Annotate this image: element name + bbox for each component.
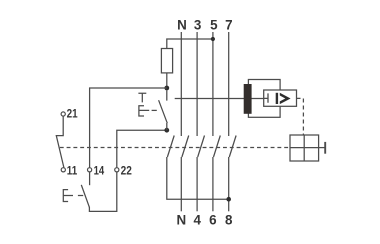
- current transformer core W1: [244, 84, 252, 114]
- test button actuator E: [139, 106, 149, 116]
- svg-text:N: N: [176, 213, 186, 228]
- wire pole 7 upper: [228, 32, 230, 136]
- aux contact 21-11: [56, 116, 64, 167]
- svg-text:6: 6: [209, 213, 216, 228]
- mechanism latch box: [290, 135, 319, 161]
- wire terminal 14 lower stub: [89, 172, 91, 185]
- wire pole 4 lower: [196, 157, 198, 211]
- svg-text:11: 11: [67, 163, 78, 177]
- resistor R (test circuit): [161, 49, 172, 73]
- terminal 22: [115, 168, 119, 172]
- wire CT secondary to relay: [175, 98, 264, 100]
- wire pole N lower: [180, 157, 182, 211]
- terminal 14: [88, 168, 92, 172]
- test contact: [159, 90, 168, 130]
- wire node to terminal 14: [90, 88, 167, 168]
- wire resistor bottom to node: [166, 73, 168, 88]
- svg-text:N: N: [177, 17, 187, 32]
- svg-text:22: 22: [121, 163, 132, 177]
- mechanism latch box cross: [290, 135, 319, 161]
- mechanical linkage (dashed): [60, 147, 290, 149]
- node junction test bottom: [164, 128, 169, 133]
- svg-text:14: 14: [94, 163, 105, 177]
- main contact pole 3-4: [198, 136, 205, 158]
- svg-text:3: 3: [194, 17, 201, 32]
- wire test branch lower to pole 8: [167, 157, 229, 199]
- node junction test top: [164, 86, 169, 91]
- current transformer secondary loop: [248, 80, 280, 118]
- svg-text:5: 5: [210, 17, 218, 32]
- wire pole 6 lower: [212, 157, 214, 211]
- wire pole 8 lower: [228, 157, 230, 211]
- handle link: [319, 147, 326, 149]
- node junction pole 8: [226, 197, 231, 202]
- main contact pole 7-8: [229, 136, 236, 158]
- relay input tick: [264, 93, 268, 102]
- lower button link (dash): [78, 195, 83, 197]
- svg-text:21: 21: [67, 107, 78, 121]
- relay symbol I: [276, 93, 278, 104]
- node junction on pole 5: [211, 37, 215, 41]
- wire terminal 22 to test contact node: [117, 130, 167, 167]
- wire pole 3 upper: [196, 32, 198, 136]
- main contact pole 5-6: [214, 136, 221, 158]
- lower button actuator E: [63, 190, 73, 202]
- relay symbol >: [280, 93, 291, 104]
- terminal 11: [61, 168, 65, 172]
- svg-text:7: 7: [225, 17, 232, 32]
- wire pole N upper: [180, 32, 182, 136]
- main contact test branch: [167, 136, 174, 158]
- relay trip linkage (dashed): [297, 98, 304, 135]
- test button T: [138, 93, 146, 102]
- main contact pole N: [182, 136, 189, 158]
- lower contact 14-22 blade: [81, 185, 89, 207]
- test button link (dash): [152, 109, 157, 111]
- terminal 21: [61, 112, 65, 116]
- handle bar: [324, 142, 326, 154]
- svg-text:4: 4: [193, 213, 201, 228]
- wire resistor top to pole 5: [167, 39, 213, 49]
- wire lower contact to terminal 22: [89, 172, 116, 211]
- wire pole 5 upper: [212, 32, 214, 136]
- residual current relay box: [264, 90, 297, 106]
- svg-text:8: 8: [225, 213, 233, 228]
